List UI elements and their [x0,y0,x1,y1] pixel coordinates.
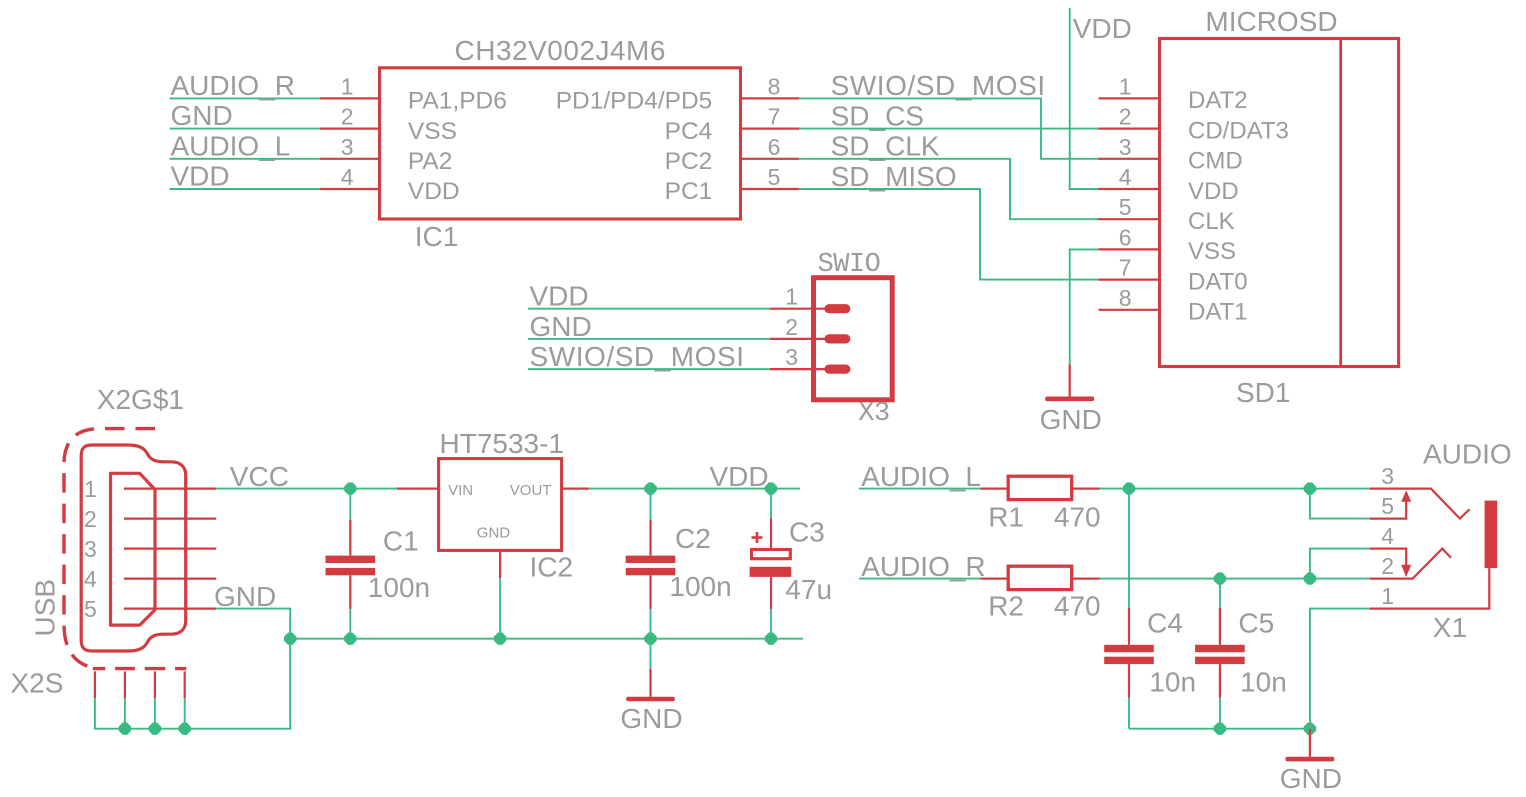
ground symbol (audio) [1309,729,1311,757]
svg-text:GND: GND [1040,404,1102,435]
X1 pin 4 stub and switch arrow [1370,549,1406,566]
capacitor C5 top lead [1219,579,1221,608]
X1 pin 3 stub and tip contact [1370,489,1470,519]
capacitor C1 top lead [349,489,351,520]
svg-text:8: 8 [1119,285,1132,311]
resistor R1 left lead [980,488,1008,490]
junction AUDIO_R / C5 [1214,572,1226,584]
X3 pin 3 stub [770,368,827,370]
svg-text:1: 1 [341,73,354,99]
wire VCC: USB pin1 to IC2 VIN [216,488,397,490]
capacitor C5 bottom lead [1219,664,1221,697]
SD1 pin 8 stub [1099,309,1160,311]
junction shield bus [119,723,131,735]
svg-text:VDD: VDD [171,161,230,192]
svg-text:5: 5 [768,164,781,190]
svg-text:X2G$1: X2G$1 [97,384,184,415]
svg-text:IC1: IC1 [415,221,459,252]
svg-text:2: 2 [341,104,354,130]
svg-text:VCC: VCC [230,461,289,492]
connector X3 SWI0 body [814,278,893,400]
junction jack ground on audio rail [1304,723,1316,735]
junction GND rail / USB [284,633,296,645]
svg-text:3: 3 [84,536,97,562]
ground symbol (SD card) [1069,365,1071,397]
svg-text:470: 470 [1054,501,1101,532]
svg-text:VIN: VIN [448,482,473,499]
svg-text:VDD: VDD [530,281,589,312]
svg-text:4: 4 [1119,164,1132,190]
junction AUDIO_L / C4 [1123,482,1135,494]
svg-text:VDD: VDD [1073,13,1132,44]
IC1 pin 7 stub [741,128,800,130]
svg-text:SD_CS: SD_CS [831,100,924,131]
svg-text:8: 8 [768,73,781,99]
svg-text:PA2: PA2 [408,148,453,175]
junction AUDIO_R at jack [1304,572,1316,584]
svg-text:DAT0: DAT0 [1188,268,1248,295]
svg-text:10n: 10n [1240,666,1287,697]
connector SD1 MICROSD body [1160,39,1399,367]
wire audio ground rail [1129,728,1310,730]
svg-text:CH32V002J4M6: CH32V002J4M6 [455,35,666,66]
svg-text:GND: GND [530,311,592,342]
svg-text:VDD: VDD [710,461,769,492]
svg-text:GND: GND [1280,763,1342,794]
X2G$1 mini-USB inner cavity outline [111,473,156,625]
svg-text:3: 3 [785,344,798,370]
svg-text:5: 5 [84,596,97,622]
svg-text:PC4: PC4 [665,118,713,145]
wire jack pin5 tie to AUDIO_L [1310,489,1370,519]
capacitor C4 bottom lead [1128,664,1130,697]
capacitor C1 bottom lead [349,575,351,609]
wire SD_CS: IC1 pin7 to SD CD/DAT3 [799,128,1100,130]
svg-text:470: 470 [1054,591,1101,622]
IC1 pin 3 stub [320,158,380,160]
svg-text:GND: GND [171,100,233,131]
svg-text:100n: 100n [669,571,731,602]
svg-text:7: 7 [768,104,781,130]
IC1 pin 4 stub [320,188,380,190]
svg-text:AUDIO_R: AUDIO_R [861,551,985,582]
IC1 pin 6 stub [741,158,800,160]
junction AUDIO_L at jack [1304,482,1316,494]
SD1 pin 6 stub [1099,248,1160,250]
X2S shield pin 1 stub [94,671,96,698]
IC1 pin 2 stub [320,128,380,130]
svg-text:C4: C4 [1147,608,1183,639]
capacitor C3 top lead [770,489,772,519]
svg-text:2: 2 [785,314,798,340]
junction VDD / C2 [644,482,656,494]
X2S shield pin 3 stub [154,671,156,698]
wire main ground rail [290,638,803,640]
svg-text:AUDIO: AUDIO [1423,439,1512,470]
svg-text:USB: USB [30,579,61,637]
wire jack pin4 tie to AUDIO_R [1310,549,1370,579]
svg-text:3: 3 [341,134,354,160]
resistor R2 right lead [1072,577,1100,579]
junction IC2 GND on rail [494,633,506,645]
svg-text:PC2: PC2 [665,148,713,175]
svg-text:10n: 10n [1149,666,1196,697]
svg-text:GND: GND [477,524,511,541]
svg-text:DAT1: DAT1 [1188,299,1248,326]
X2G$1 pin 3 line [124,547,216,549]
X2S dashed separator [93,667,186,670]
junction C3 on GND rail [765,633,777,645]
svg-text:47u: 47u [785,574,832,605]
SD1 pin 3 stub [1099,158,1160,160]
svg-text:VSS: VSS [1188,238,1236,265]
X3 pin 2 contact pad [824,334,850,343]
svg-text:C1: C1 [383,525,419,556]
svg-text:PA1,PD6: PA1,PD6 [408,88,507,115]
junction C2 on GND rail [644,633,656,645]
wire SWIO/SD_MOSI: IC1 pin8 to SD CMD [799,98,1100,158]
svg-text:C3: C3 [789,517,825,548]
svg-text:X3: X3 [858,399,889,429]
wire AUDIO_R filtered to jack pin2 [1100,578,1370,580]
wire GND: USB pin5 to ground rail [216,609,290,639]
IC2 VIN pin stub [397,488,439,490]
capacitor C3 positive plate (hollow) [752,550,791,559]
wire jack pin1 to audio ground [1310,609,1370,729]
junction shield bus [179,723,191,735]
svg-text:CD/DAT3: CD/DAT3 [1188,117,1289,144]
svg-text:AUDIO_R: AUDIO_R [171,70,295,101]
wire VDD: IC2 VOUT to right [589,488,800,490]
capacitor C4 plates [1104,645,1154,652]
X3 pin 1 stub [770,308,827,310]
wire shield pin drop [184,698,186,728]
svg-text:C5: C5 [1238,608,1274,639]
svg-text:4: 4 [1381,523,1394,549]
wire net GND (IC1 pin 2) [170,128,321,130]
svg-text:DAT2: DAT2 [1188,87,1248,114]
svg-text:2: 2 [84,506,97,532]
svg-text:1: 1 [1119,73,1132,99]
wire shield pin drop [124,698,126,728]
svg-text:SD1: SD1 [1236,377,1290,408]
IC IC2 HT7533-1 body [439,459,562,551]
svg-text:AUDIO_L: AUDIO_L [861,461,981,492]
svg-text:SWIO: SWIO [818,250,881,280]
svg-text:1: 1 [1381,583,1394,609]
capacitor C2 bottom lead [649,575,651,609]
IC1 pin 1 stub [320,97,380,99]
svg-text:VDD: VDD [1188,178,1239,205]
IC1 pin 5 stub [741,188,800,190]
X1 pin 5 stub and switch arrow [1370,500,1406,519]
resistor R2 body [1008,566,1071,589]
svg-text:1: 1 [785,284,798,310]
X3 pin 3 contact pad [824,365,850,374]
svg-text:6: 6 [768,134,781,160]
junction VDD / C3 [765,482,777,494]
X2G$1 pin 2 line [124,517,216,519]
IC1 pin 8 stub [741,97,800,99]
X2S shield pin 2 stub [124,671,126,698]
SD1 body inner line [1339,39,1342,367]
IC IC1 CH32V002J4M6 body [380,68,741,219]
svg-text:3: 3 [1119,134,1132,160]
svg-text:6: 6 [1119,224,1132,250]
svg-text:X1: X1 [1433,612,1467,643]
wire net AUDIO_R (IC1 pin 1) [170,97,321,99]
svg-text:IC2: IC2 [530,552,574,583]
svg-text:R2: R2 [988,591,1024,622]
X2S shield pin 4 stub [184,671,186,698]
SD1 pin 1 stub [1099,97,1160,99]
svg-text:VOUT: VOUT [510,482,552,499]
capacitor C1 plates [326,556,376,563]
svg-text:C2: C2 [675,523,711,554]
svg-text:PC1: PC1 [665,178,713,205]
svg-text:SD_MISO: SD_MISO [831,161,957,192]
capacitor C2 plates [626,556,676,563]
svg-text:CLK: CLK [1188,208,1235,235]
svg-text:2: 2 [1119,104,1132,130]
svg-text:5: 5 [1381,493,1394,519]
ground symbol (below C2) [649,669,651,697]
X2G$1 pin 1 line [124,488,216,490]
wire net GND (X3 pin 2) [528,338,770,340]
svg-text:SD_CLK: SD_CLK [831,131,940,162]
svg-text:GND: GND [620,703,682,734]
wire IC2 GND to rail [499,578,501,639]
junction VCC / C1 [344,482,356,494]
resistor R2 left lead [980,577,1008,579]
svg-text:SWIO/SD_MOSI: SWIO/SD_MOSI [530,341,745,372]
svg-text:3: 3 [1381,463,1394,489]
svg-text:GND: GND [214,581,276,612]
wire SD_MISO: IC1 pin5 to SD DAT0 [799,189,1100,280]
junction C5 on audio ground rail [1214,723,1226,735]
svg-text:AUDIO_L: AUDIO_L [171,130,291,161]
wire net VDD (X3 pin 1) [528,308,770,310]
X2G$1 pin 4 line [124,577,216,579]
X3 pin 1 contact pad [824,304,850,313]
wire shield bus to ground [95,639,290,729]
capacitor C2 top lead [650,489,652,520]
wire AUDIO_L to R1 [859,488,981,490]
capacitor C3 bottom lead [770,577,772,609]
X1 jack sleeve body [1485,501,1498,568]
X2G$1 mini-USB outer shell outline [81,445,186,651]
svg-text:VDD: VDD [408,178,460,205]
capacitor C5 plates [1195,645,1245,652]
wire AUDIO_L filtered to jack pin3 [1100,488,1370,490]
svg-text:HT7533-1: HT7533-1 [440,428,565,459]
svg-text:MICROSD: MICROSD [1205,6,1337,37]
svg-text:5: 5 [1119,194,1132,220]
svg-text:CMD: CMD [1188,148,1243,175]
wire net VDD (IC1 pin 4) [170,188,321,190]
SD1 pin 4 stub [1099,188,1160,190]
X3 pin 2 stub [770,338,827,340]
capacitor C3 plus sign [752,536,763,539]
wire AUDIO_R to R2 [859,578,981,580]
wire VDD supply down to SD pin4 [1070,8,1100,189]
X1 pin 2 stub and ring contact [1370,549,1451,579]
svg-text:SWIO/SD_MOSI: SWIO/SD_MOSI [831,70,1046,101]
wire shield pin drop [154,698,156,728]
svg-text:4: 4 [341,164,354,190]
svg-text:R1: R1 [988,501,1024,532]
IC2 GND pin stub [499,550,501,578]
SD1 pin 7 stub [1099,279,1160,281]
SD1 pin 2 stub [1099,128,1160,130]
wire net SWIO/SD_MOSI (X3 pin 3) [528,368,770,370]
X2G$1 pin 5 line [124,607,216,609]
X1 pin 1 stub to sleeve [1370,568,1489,609]
capacitor C3 negative plate (solid) [750,567,792,577]
capacitor C4 top lead [1128,489,1130,608]
wire SD_CLK: IC1 pin6 to SD CLK [799,159,1100,219]
svg-text:100n: 100n [368,572,430,603]
svg-text:1: 1 [84,476,97,502]
junction shield bus [149,723,161,735]
wire C2 GND stem [650,639,652,669]
junction C1 on GND rail [344,633,356,645]
svg-text:4: 4 [84,566,97,592]
resistor R1 body [1008,476,1071,499]
svg-text:VSS: VSS [408,118,457,145]
resistor R1 right lead [1072,488,1100,490]
wire net AUDIO_L (IC1 pin 3) [170,158,321,160]
svg-text:2: 2 [1381,553,1394,579]
SD1 pin 5 stub [1099,218,1160,220]
svg-text:PD1/PD4/PD5: PD1/PD4/PD5 [556,88,713,115]
svg-text:7: 7 [1119,255,1132,281]
IC2 VOUT pin stub [562,488,589,490]
wire VSS of SD to ground [1070,249,1100,364]
X2G$1 dashed enclosure [64,429,155,668]
svg-text:X2S: X2S [11,667,64,698]
